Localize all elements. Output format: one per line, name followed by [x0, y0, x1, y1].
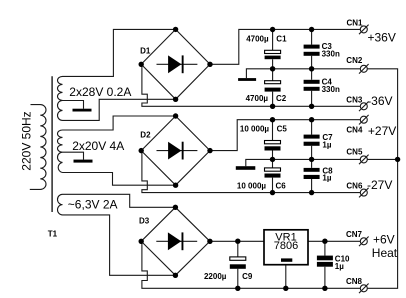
svg-text:CN5: CN5 [346, 147, 363, 156]
wire: capacitor C2 leads [272, 69, 274, 107]
junction dot C2 bottom [270, 104, 275, 109]
wire: D3 plus output to VR1 input [210, 240, 264, 242]
svg-text:~6,3V 2A: ~6,3V 2A [68, 198, 118, 212]
wire: capacitor C10 leads [324, 241, 326, 288]
bridge rectifier D2 [139, 113, 213, 188]
svg-text:+27V: +27V [368, 124, 396, 138]
capacitor C8 1µ film [304, 168, 320, 179]
svg-text:2x28V 0.2A: 2x28V 0.2A [69, 85, 131, 99]
capacitor C4 330n film [304, 80, 320, 91]
wire: capacitor C9 leads [237, 241, 239, 288]
wire: D3 minus output to 0V bottom rail and CN8 [142, 242, 360, 289]
voltage regulator U VR1 7806 body [264, 230, 308, 265]
connector CN3 [359, 102, 369, 112]
svg-text:C9: C9 [242, 272, 253, 281]
svg-text:D2: D2 [140, 131, 151, 140]
junction dot VR1 ground [283, 286, 288, 291]
svg-text:10 000µ: 10 000µ [237, 181, 266, 190]
wire: D1 minus output to -36V rail and CN3 [142, 65, 360, 107]
svg-text:CN3: CN3 [346, 95, 363, 104]
svg-text:10 000µ: 10 000µ [240, 124, 269, 133]
junction dot C1 top [270, 27, 275, 32]
junction dot C5 top [270, 117, 275, 122]
svg-text:CN1: CN1 [347, 19, 364, 28]
wire: secondary1 top lead to D1 AC top [63, 29, 176, 76]
junction dot C10 top [322, 239, 327, 244]
svg-text:C1: C1 [276, 35, 287, 44]
capacitor C9 2200µ electrolytic [230, 257, 246, 269]
junction dot C7 top [309, 117, 314, 122]
wire: capacitor C5 leads [272, 120, 274, 160]
bridge rectifier D3 [139, 205, 213, 278]
wire: CN5 to right-edge common rail [367, 158, 397, 160]
capacitor C10 1µ film [317, 256, 333, 267]
wire: secondary2 top lead to D2 AC top [63, 116, 176, 130]
svg-text:1µ: 1µ [335, 262, 344, 271]
wire: 0V mid rail (±27V section) to CN5 with ground stub [246, 159, 360, 166]
capacitor C1 4700µ electrolytic [265, 50, 281, 59]
svg-text:D1: D1 [140, 47, 151, 56]
junction dot C9 top [235, 239, 240, 244]
svg-text:CN6: CN6 [346, 182, 363, 191]
svg-text:Heat: Heat [372, 246, 398, 260]
wire: CN2 to right-edge common rail down to CN8 [367, 69, 397, 288]
ground symbol at secondary2 center tap [74, 160, 93, 163]
capacitor C6 10000µ electrolytic [265, 168, 281, 178]
transformer T1 secondary winding 3 (~6,3V 2A) [57, 194, 62, 215]
transformer T1 secondary winding 1 (2x28V 0.2A) [58, 76, 63, 120]
svg-text:7806: 7806 [274, 240, 298, 252]
junction dot C3 top [309, 27, 314, 32]
capacitor C3 330n film [304, 45, 320, 56]
connector CN4 [359, 115, 369, 125]
transformer T1 primary winding [30, 105, 46, 190]
svg-text:-36V: -36V [367, 94, 392, 108]
junction dot C10 bottom [322, 286, 327, 291]
wire: secondary3 top lead to D3 AC top [63, 194, 176, 207]
wire: VR1 ground pin to 0V rail [285, 265, 287, 289]
svg-text:CN2: CN2 [346, 56, 363, 65]
svg-text:T1: T1 [48, 230, 58, 239]
svg-text:C6: C6 [276, 181, 287, 190]
svg-text:+6V: +6V [373, 232, 395, 246]
ground symbol at secondary1 center tap [73, 109, 92, 112]
svg-text:2200µ: 2200µ [204, 272, 227, 281]
bridge rectifier D1 [139, 27, 213, 102]
svg-text:1µ: 1µ [322, 174, 331, 183]
junction dot C5/C6 mid [270, 157, 275, 162]
wire: 0V mid rail (±36V section) to CN2 with ground stub [246, 69, 360, 78]
connector CN5 [359, 155, 369, 165]
junction dot C6 bottom [270, 190, 275, 195]
capacitor C5 10000µ electrolytic [265, 141, 281, 151]
junction dot C7/C8 mid [309, 157, 314, 162]
wire: secondary1 bottom lead to D1 AC bottom [63, 99, 176, 120]
wire: secondary3 bottom lead to D3 AC bottom [63, 215, 176, 275]
svg-text:CN7: CN7 [346, 230, 363, 239]
wire: D2 plus output to +27V rail and CN4 [210, 120, 360, 151]
capacitor C7 1µ film [304, 135, 320, 146]
ground symbol on 0V mid rail (±27V section) [236, 166, 256, 170]
junction dot C9 bottom [235, 286, 240, 291]
connector CN2 [359, 64, 369, 74]
wire: capacitor C8 leads [311, 159, 313, 192]
wire: VR1 output to CN7 [308, 240, 360, 242]
junction dot C4 bottom [309, 104, 314, 109]
svg-text:4700µ: 4700µ [246, 35, 269, 44]
wire: capacitor C1 leads [272, 30, 274, 69]
connector CN7 [359, 237, 369, 247]
wire: D1 plus output to +36V rail and CN1 [210, 29, 360, 64]
svg-text:+36V: +36V [368, 30, 396, 44]
VR1 tab mark [281, 258, 292, 261]
capacitor C2 4700µ electrolytic [265, 81, 281, 92]
svg-text:330n: 330n [322, 49, 340, 58]
svg-text:-27V: -27V [367, 178, 392, 192]
connector CN8 [359, 284, 369, 294]
transformer T1 secondary winding 2 (2x20V 4A) [58, 130, 63, 172]
wire: capacitor C7 leads [311, 120, 313, 160]
transformer T1 core [51, 76, 53, 212]
junction dot C1/C2 mid [270, 66, 275, 71]
svg-text:1µ: 1µ [322, 140, 331, 149]
junction dot C8 bottom [309, 190, 314, 195]
wire: capacitor C3 leads [311, 30, 313, 69]
svg-text:D3: D3 [139, 216, 150, 225]
svg-text:C2: C2 [276, 94, 287, 103]
connector CN1 [359, 25, 369, 35]
svg-text:CN4: CN4 [346, 126, 363, 135]
connector CN6 [359, 188, 369, 198]
junction dot C3/C4 mid [309, 66, 314, 71]
svg-text:C5: C5 [277, 124, 288, 133]
svg-text:220V 50Hz: 220V 50Hz [20, 111, 34, 170]
junction dot right rail at CN5 [395, 157, 400, 162]
svg-text:4700µ: 4700µ [246, 94, 269, 103]
wire: D2 minus output to -27V rail and CN6 [142, 151, 360, 193]
ground symbol on 0V mid rail (±36V section) [238, 78, 256, 81]
wire: secondary2 center tap to ground [63, 152, 84, 159]
svg-text:2x20V 4A: 2x20V 4A [72, 139, 124, 153]
svg-text:330n: 330n [322, 85, 340, 94]
wire: capacitor C4 leads [311, 69, 313, 107]
wire: secondary1 center tap to ground [63, 101, 84, 109]
svg-text:CN8: CN8 [346, 277, 363, 286]
wire: secondary2 bottom lead to D2 AC bottom [63, 173, 176, 186]
wire: capacitor C6 leads [272, 159, 274, 192]
